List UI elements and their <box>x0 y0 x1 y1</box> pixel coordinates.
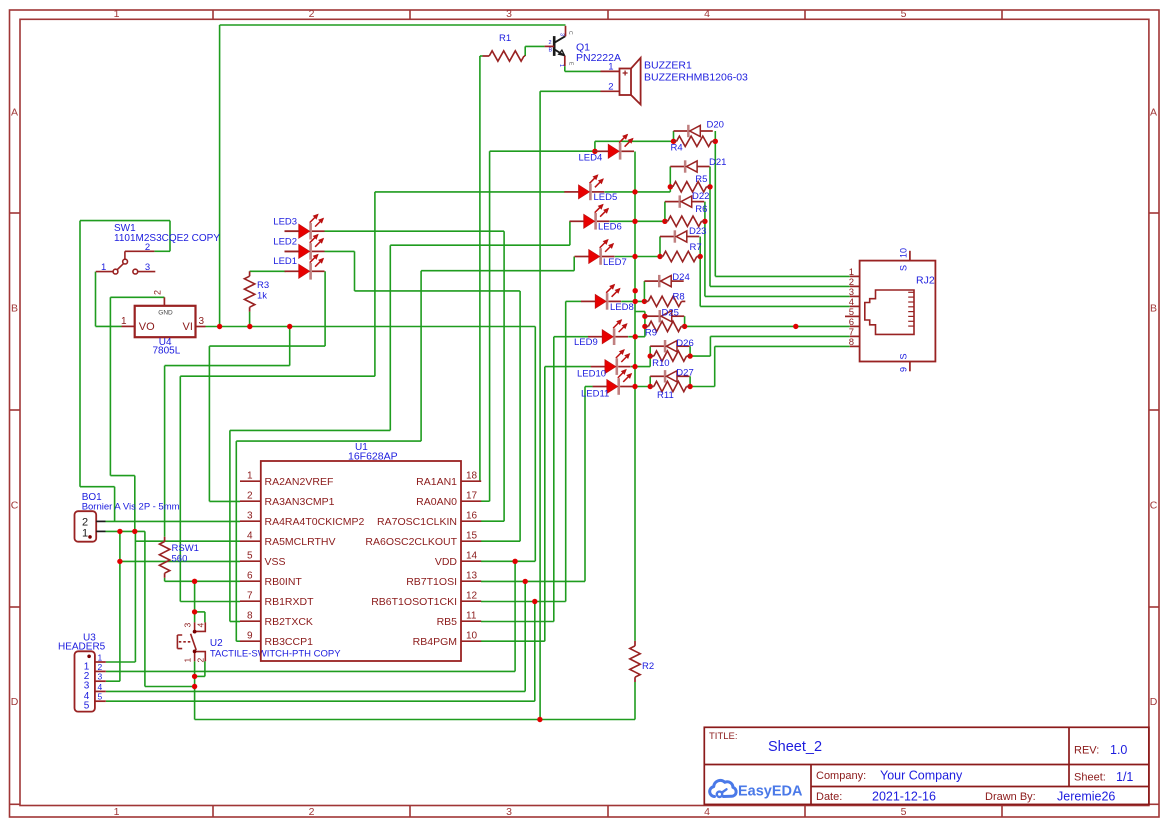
LED LED2 <box>285 234 325 260</box>
wire ground to U3 pin1 / U1 pin4 <box>134 531 136 662</box>
wire Q1 emitter to buzzer pin1 <box>564 66 566 71</box>
svg-text:S: S <box>899 265 909 271</box>
wire D26 right riser <box>689 346 691 356</box>
resistor R4 <box>674 140 677 142</box>
svg-text:RB6T1OSOT1CKI: RB6T1OSOT1CKI <box>371 596 457 608</box>
U1 pin 18 RA1AN1 <box>461 480 481 482</box>
wire D20 left riser <box>673 131 675 141</box>
svg-text:2: 2 <box>196 658 206 663</box>
svg-text:RA3AN3CMP1: RA3AN3CMP1 <box>265 496 335 508</box>
wire R6 right to RJ2 pin3 <box>704 202 706 297</box>
wire LED3 cathode to U1 pin16 <box>325 230 505 232</box>
wire R9 to RJ2 pin6 <box>685 325 850 327</box>
LED LED6 <box>570 204 610 230</box>
svg-text:R9: R9 <box>645 328 657 339</box>
wire R3 bottom to +5V bus <box>249 312 251 327</box>
RJ2 pin 9 shield bottom <box>909 362 911 372</box>
svg-text:2: 2 <box>608 82 613 93</box>
resistor R1 <box>483 55 490 57</box>
LED LED5 <box>564 174 604 200</box>
svg-text:6: 6 <box>247 571 253 582</box>
RJ2 pin 4 <box>850 305 860 307</box>
svg-text:4: 4 <box>247 531 253 542</box>
svg-text:RA4RA4T0CKICMP2: RA4RA4T0CKICMP2 <box>265 516 365 528</box>
svg-text:VO: VO <box>139 321 155 333</box>
IC U1 16F628AP <box>261 461 461 661</box>
svg-text:17: 17 <box>466 491 478 502</box>
svg-text:D24: D24 <box>672 272 689 283</box>
U1 pin 1 RA2AN2VREF <box>240 480 261 482</box>
U1 pin 3 RA4RA4T0CKICMP2 <box>240 520 261 522</box>
resistor R8 <box>644 300 648 302</box>
resistor R5 <box>670 186 673 188</box>
svg-text:LED8: LED8 <box>610 302 634 313</box>
svg-text:18: 18 <box>466 471 478 482</box>
wire +5V bus from U4 VI <box>206 326 536 328</box>
svg-text:7: 7 <box>247 591 253 602</box>
wire SW1 pin2 net <box>154 250 170 252</box>
diode D23 <box>660 230 699 242</box>
svg-text:RA5MCLRTHV: RA5MCLRTHV <box>265 536 336 548</box>
svg-text:RA0AN0: RA0AN0 <box>416 496 457 508</box>
svg-text:5: 5 <box>98 692 103 702</box>
svg-text:2: 2 <box>549 40 552 46</box>
wire D21 left riser <box>669 167 671 187</box>
wire LED11 anode to U1 pin13 <box>585 386 593 388</box>
svg-text:EasyEDA: EasyEDA <box>738 784 803 800</box>
wire BO1 pin2 to U1 pin3 <box>106 520 241 522</box>
svg-text:HEADER5: HEADER5 <box>58 642 106 653</box>
LED LED4 <box>594 134 634 160</box>
svg-text:LED9: LED9 <box>574 337 598 348</box>
svg-text:560: 560 <box>172 554 188 565</box>
svg-text:2: 2 <box>309 8 315 20</box>
LED LED7 <box>575 239 615 265</box>
svg-text:LED2: LED2 <box>273 237 297 248</box>
LED LED11 <box>593 369 633 395</box>
svg-text:REV:: REV: <box>1074 745 1099 757</box>
wire LED8 cathode to R8/D24 <box>621 300 644 302</box>
svg-text:Your Company: Your Company <box>880 769 963 783</box>
svg-text:8: 8 <box>247 611 253 622</box>
wire +5V bus to U1 VDD pin14 <box>534 327 536 562</box>
svg-text:3: 3 <box>506 806 512 818</box>
svg-text:RSW1: RSW1 <box>172 543 199 554</box>
svg-text:1: 1 <box>608 62 613 73</box>
RJ2 pin 2 <box>850 285 860 287</box>
svg-text:3: 3 <box>183 623 193 628</box>
diode D25 <box>645 310 684 322</box>
svg-text:10: 10 <box>899 248 909 258</box>
wire R4 right to RJ2 pin1 <box>714 131 716 276</box>
svg-text:1: 1 <box>101 262 106 273</box>
svg-text:5: 5 <box>84 701 90 712</box>
svg-text:12: 12 <box>466 591 478 602</box>
LED LED8 <box>581 284 621 310</box>
svg-text:Bornier A Vis 2P - 5mm: Bornier A Vis 2P - 5mm <box>82 502 180 513</box>
wire U1 VDD to U3 pin2 <box>514 561 516 671</box>
svg-text:D22: D22 <box>692 191 709 202</box>
svg-text:1: 1 <box>558 64 564 67</box>
svg-text:LED3: LED3 <box>273 217 297 228</box>
wire LED10 cathode to R10 ladder <box>631 366 650 368</box>
diode D20 <box>674 125 713 137</box>
svg-text:R11: R11 <box>657 390 674 401</box>
resistor RSW1 <box>164 537 166 542</box>
resistor R9 <box>645 325 649 327</box>
LED LED1 <box>285 254 325 280</box>
U1 pin 14 VDD <box>461 560 481 562</box>
wire ground down to U2 and bottom rail <box>144 531 146 686</box>
svg-text:RA1AN1: RA1AN1 <box>416 476 457 488</box>
wire D27 right riser <box>689 376 691 386</box>
wire +5V top rail to Q1 collector <box>220 24 566 26</box>
wire LED cathode bus to R2 <box>634 152 636 641</box>
connector RJ2 <box>860 261 936 362</box>
svg-text:1.0: 1.0 <box>1110 743 1127 757</box>
svg-text:C: C <box>1150 500 1158 512</box>
svg-text:VI: VI <box>183 321 193 333</box>
svg-text:1: 1 <box>183 658 193 663</box>
wire D22 left riser <box>664 202 666 222</box>
svg-text:3: 3 <box>199 316 205 327</box>
svg-text:RB7T1OSI: RB7T1OSI <box>406 576 457 588</box>
svg-text:LED7: LED7 <box>603 257 627 268</box>
svg-text:Jeremie26: Jeremie26 <box>1057 790 1115 804</box>
U1 pin 17 RA0AN0 <box>461 500 481 502</box>
svg-text:LED10: LED10 <box>577 369 606 380</box>
svg-text:1: 1 <box>114 8 120 20</box>
svg-text:5: 5 <box>901 8 907 20</box>
svg-text:2: 2 <box>309 806 315 818</box>
wire R1 left to U1 pin18 riser <box>479 56 481 481</box>
wire R11 to RJ2 pin8 <box>690 386 715 388</box>
svg-text:R7: R7 <box>690 242 702 253</box>
svg-text:2: 2 <box>153 290 163 295</box>
svg-text:RJ2: RJ2 <box>916 275 935 287</box>
svg-text:VSS: VSS <box>265 556 286 568</box>
svg-text:R3: R3 <box>257 280 269 291</box>
wire U2 switch bottom to ground <box>194 661 196 676</box>
wire D27 left riser <box>649 376 651 386</box>
svg-text:8: 8 <box>849 337 854 348</box>
resistor R10 <box>650 355 654 357</box>
tactile switch U2 <box>177 622 205 661</box>
diode D21 <box>670 160 709 172</box>
svg-text:D27: D27 <box>676 367 693 378</box>
wire U1 pin12 to U3 pin5 <box>534 602 536 702</box>
svg-text:RB1RXDT: RB1RXDT <box>265 596 315 608</box>
RJ2 pin 5 <box>845 315 860 317</box>
LED LED3 <box>285 214 325 240</box>
wire LED8 anode to U1 pin12 <box>566 300 582 302</box>
U1 pin 16 RA7OSC1CLKIN <box>461 520 481 522</box>
wire buzzer pin2 down to ground bus <box>540 90 600 92</box>
svg-text:1: 1 <box>121 316 127 327</box>
header U3 HEADER5 <box>75 651 95 711</box>
regulator U4 7805L <box>135 306 196 337</box>
title block <box>704 727 1149 804</box>
wire U1 pin6 to U2 switch top <box>194 581 196 612</box>
svg-text:3: 3 <box>247 511 253 522</box>
buzzer BUZZER1 <box>620 58 641 105</box>
svg-text:C: C <box>11 500 19 512</box>
svg-text:LED6: LED6 <box>598 222 622 233</box>
svg-text:RA2AN2VREF: RA2AN2VREF <box>265 476 334 488</box>
wire LED6 anode staircase to U1 pin8 <box>569 221 571 245</box>
svg-text:RB2TXCK: RB2TXCK <box>265 616 313 628</box>
wire +5V bus branch to RSW1 <box>289 327 291 366</box>
svg-text:Sheet:: Sheet: <box>1074 772 1106 784</box>
junction dots <box>592 149 597 154</box>
svg-text:1: 1 <box>82 528 88 540</box>
svg-text:16F628AP: 16F628AP <box>348 451 398 463</box>
svg-text:U2: U2 <box>210 638 223 649</box>
diode D26 <box>650 340 689 352</box>
wire LED9 cathode to R9 ladder <box>628 336 645 338</box>
wire ground to VSS and U3 pin3 <box>119 531 121 681</box>
svg-text:R10: R10 <box>652 358 669 369</box>
svg-text:Sheet_2: Sheet_2 <box>768 739 822 755</box>
RJ2 pin 7 <box>850 335 860 337</box>
wire R5 right to RJ2 pin2 <box>709 167 711 287</box>
U1 pin 6 RB0INT <box>240 580 261 582</box>
U1 pin 5 VSS <box>240 560 261 562</box>
wire LED2 cathode to U1 pin15 and cathode bus <box>325 250 355 252</box>
svg-text:11: 11 <box>466 611 477 622</box>
wire LED1 anode to R3 <box>250 270 286 272</box>
svg-text:LED11: LED11 <box>581 389 609 400</box>
svg-text:BUZZER1: BUZZER1 <box>644 60 692 72</box>
wire LED1 cathode to U1 pin2 <box>324 271 326 346</box>
LED LED9 <box>588 319 628 345</box>
svg-text:3: 3 <box>98 672 103 682</box>
svg-text:4: 4 <box>704 8 710 20</box>
svg-text:1101M2S3CQE2 COPY: 1101M2S3CQE2 COPY <box>114 233 220 244</box>
svg-text:C: C <box>567 31 573 35</box>
U1 pin 2 RA3AN3CMP1 <box>240 500 261 502</box>
wire LED5 cathode to R5 pair <box>605 191 671 193</box>
wire LED9 anode to U1 pin11 <box>554 336 588 338</box>
svg-text:7805L: 7805L <box>153 346 181 357</box>
U1 pin 11 RB5 <box>461 620 481 622</box>
wire R7 right to RJ2 pin4 <box>699 237 701 307</box>
svg-text:Company:: Company: <box>816 770 866 782</box>
svg-text:GND: GND <box>158 310 173 317</box>
svg-text:4: 4 <box>196 623 206 628</box>
svg-text:D: D <box>11 696 19 708</box>
svg-text:LED4: LED4 <box>579 153 603 164</box>
svg-text:4: 4 <box>704 806 710 818</box>
resistor R2 <box>634 641 636 646</box>
svg-text:RB5: RB5 <box>437 616 458 628</box>
U1 pin 4 RA5MCLRTHV <box>240 540 261 542</box>
wire LED11 cathode to R11 <box>633 386 650 388</box>
svg-text:R6: R6 <box>695 204 707 215</box>
svg-text:D20: D20 <box>707 120 724 131</box>
U1 pin 7 RB1RXDT <box>240 600 261 602</box>
svg-text:D23: D23 <box>689 226 706 237</box>
svg-text:5: 5 <box>901 806 907 818</box>
wire LED6 cathode to R6 pair <box>610 220 665 222</box>
wire LED10 anode to U1 pin10 <box>545 366 591 368</box>
svg-text:PN2222A: PN2222A <box>576 52 621 64</box>
svg-text:RB4PGM: RB4PGM <box>413 636 457 648</box>
svg-text:10: 10 <box>466 631 478 642</box>
svg-text:15: 15 <box>466 531 478 542</box>
wire R10 to RJ2 pin7 <box>690 355 710 357</box>
svg-text:TACTILE-SWITCH-PTH COPY: TACTILE-SWITCH-PTH COPY <box>210 649 341 660</box>
resistor R3 <box>249 271 251 276</box>
svg-text:RB3CCP1: RB3CCP1 <box>265 636 314 648</box>
U1 pin 10 RB4PGM <box>461 640 481 642</box>
svg-text:R2: R2 <box>642 661 654 672</box>
svg-text:B: B <box>11 303 18 315</box>
svg-text:B: B <box>1150 303 1157 315</box>
U1 pin 15 RA6OSC2CLKOUT <box>461 540 481 542</box>
svg-text:1k: 1k <box>257 291 267 302</box>
svg-text:RA7OSC1CLKIN: RA7OSC1CLKIN <box>377 516 457 528</box>
U1 pin 9 RB3CCP1 <box>240 640 261 642</box>
wire D23 left riser <box>659 237 661 257</box>
switch SW1 <box>96 251 156 274</box>
svg-text:3: 3 <box>145 262 150 273</box>
svg-text:VDD: VDD <box>435 556 458 568</box>
svg-text:D25: D25 <box>662 308 679 319</box>
resistor R7 <box>660 256 663 258</box>
U1 pin 8 RB2TXCK <box>240 620 261 622</box>
svg-text:2: 2 <box>98 662 103 672</box>
wire R1 right to Q1 base <box>524 46 526 56</box>
wire LED7 cathode to R7 pair <box>615 256 660 258</box>
wire D24 left riser <box>643 281 645 301</box>
svg-text:BUZZERHMB1206-03: BUZZERHMB1206-03 <box>644 72 748 84</box>
U1 pin 13 RB7T1OSI <box>461 580 481 582</box>
svg-text:13: 13 <box>466 571 478 582</box>
resistor R6 <box>665 220 668 222</box>
svg-text:A: A <box>1150 107 1157 119</box>
svg-text:1/1: 1/1 <box>1116 770 1133 784</box>
RJ2 pin 3 <box>850 295 860 297</box>
EasyEDA logo <box>710 780 736 797</box>
svg-text:1: 1 <box>114 806 120 818</box>
resistor R11 <box>650 386 654 388</box>
diode D24 <box>644 275 683 287</box>
wire R2 bottom <box>634 682 636 720</box>
wire LED4 jog to R4/D20 pair <box>594 141 596 151</box>
wire U1 pin17 to LED4 anode <box>489 151 491 501</box>
svg-text:TITLE:: TITLE: <box>709 731 738 742</box>
svg-text:LED1: LED1 <box>273 256 297 267</box>
svg-text:Drawn By:: Drawn By: <box>985 791 1036 803</box>
diode D27 <box>650 370 689 382</box>
transistor Q1 <box>554 36 565 56</box>
RJ2 pin 8 <box>850 345 860 347</box>
terminal BO1 <box>75 511 97 542</box>
LED LED10 <box>591 349 631 375</box>
svg-text:14: 14 <box>466 551 478 562</box>
wire LED5 anode staircase to U1 pin7 <box>375 191 565 193</box>
svg-text:D26: D26 <box>676 338 693 349</box>
svg-text:1: 1 <box>247 471 253 482</box>
svg-text:9: 9 <box>899 367 909 372</box>
svg-text:R1: R1 <box>499 33 511 44</box>
svg-text:3: 3 <box>559 33 565 36</box>
svg-text:RB0INT: RB0INT <box>265 576 303 588</box>
diode D22 <box>665 195 704 207</box>
svg-text:S: S <box>899 353 909 359</box>
svg-text:2: 2 <box>247 491 253 502</box>
wire U1 pin13 to U3 pin4 <box>524 581 526 691</box>
svg-text:LED5: LED5 <box>594 192 618 203</box>
svg-text:3: 3 <box>506 8 512 20</box>
wire U4 GND to BO1 pin1 <box>110 296 164 298</box>
svg-text:4: 4 <box>98 682 103 692</box>
wire D25 right riser <box>684 316 686 326</box>
RJ2 pin 6 <box>850 325 860 327</box>
svg-text:5: 5 <box>247 551 253 562</box>
svg-text:R4: R4 <box>671 143 683 154</box>
RJ2 pin 1 <box>850 275 860 277</box>
svg-text:RA6OSC2CLKOUT: RA6OSC2CLKOUT <box>365 536 457 548</box>
svg-text:Date:: Date: <box>816 791 842 803</box>
svg-text:R8: R8 <box>673 292 685 303</box>
svg-text:9: 9 <box>247 631 253 642</box>
RJ2 pin 10 shield top <box>909 251 911 261</box>
svg-text:16: 16 <box>466 511 478 522</box>
wire LED7 anode staircase to U1 pin9 <box>573 257 575 271</box>
wire BO1 pin1 ground rail <box>106 530 145 532</box>
svg-text:2021-12-16: 2021-12-16 <box>872 790 936 804</box>
wire RSW1 bottom to U1 pin6 <box>164 578 166 582</box>
svg-text:R5: R5 <box>695 174 707 185</box>
U1 pin 12 RB6T1OSOT1CKI <box>461 600 481 602</box>
wire SW1 pin1 to U4 VO <box>95 272 97 327</box>
svg-text:B: B <box>549 48 553 54</box>
svg-text:D: D <box>1150 696 1158 708</box>
svg-text:A: A <box>11 107 18 119</box>
svg-text:D21: D21 <box>709 157 726 168</box>
